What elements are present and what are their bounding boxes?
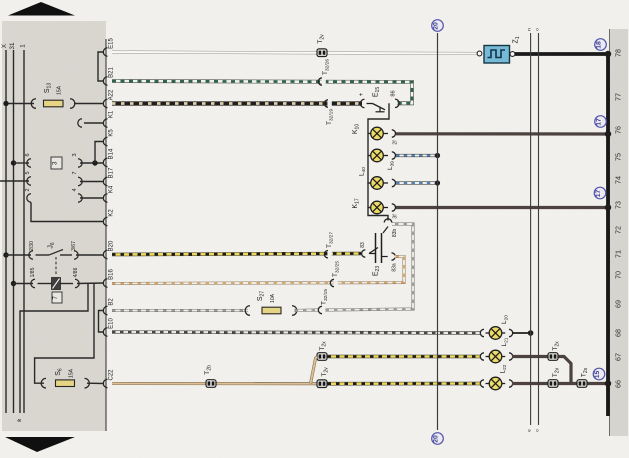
wire B2 gray to fuse S27 bbox=[112, 309, 248, 312]
connector pin 2 bbox=[27, 194, 31, 202]
wire lamp chain to terminal 83b bbox=[368, 208, 388, 221]
terminal circle at Z1 left bbox=[477, 51, 482, 56]
lamp L39 bbox=[368, 134, 371, 156]
wire B16 beige-white to terminal 83a bbox=[112, 257, 404, 284]
wire J6 coil to bus continuation ik bbox=[20, 284, 88, 414]
panel edge terminal K2 bbox=[103, 217, 107, 225]
relay J6 contact 2/30-3/67 bbox=[3, 252, 8, 257]
panel edge terminal B21 bbox=[103, 77, 107, 85]
node label 20 bottom bbox=[432, 433, 444, 445]
wire L39 blue-white to node 20 bbox=[396, 154, 438, 157]
wire T2x yellow-black to lamp L21 bbox=[328, 355, 482, 359]
panel edge terminal C22 bbox=[103, 379, 107, 387]
connector 3 box bbox=[51, 157, 62, 169]
wire K10 to track 76 brown bbox=[396, 132, 606, 135]
wire L40 blue-white to node 20 bbox=[396, 181, 438, 184]
wire T2v yellow-black to lamp L22 bbox=[328, 382, 482, 386]
wire J6 junction to fuse S6 bbox=[35, 284, 94, 384]
wire L20 to vertical node bbox=[512, 332, 531, 334]
wire switch E15 to lamp K10 bbox=[368, 103, 389, 133]
top continuation arrow bbox=[8, 2, 75, 16]
node label 15 bbox=[593, 368, 605, 380]
connector pin 3 bbox=[78, 159, 82, 167]
wire L22 brown to track 66 bbox=[512, 382, 606, 385]
inline connector T2x left bbox=[317, 353, 327, 361]
bottom continuation arrow bbox=[5, 437, 75, 452]
wire B21 green-white to switch E15 bbox=[112, 81, 412, 103]
switch E23 fog lamp bbox=[375, 233, 377, 263]
bus wire X bbox=[5, 50, 7, 413]
connector pin 7 bbox=[78, 177, 82, 185]
inline connector T2s bbox=[577, 380, 587, 388]
paper texture overlay bbox=[0, 0, 1, 1]
vertical wire n bbox=[530, 33, 532, 425]
inline connector T2v left bbox=[317, 380, 327, 388]
branch wire to T2x bbox=[311, 357, 317, 384]
node label 17 upper bbox=[595, 116, 607, 128]
terminal circle at Z1 right bbox=[510, 52, 515, 57]
positive supply rail bbox=[606, 54, 610, 416]
panel edge terminal B17 bbox=[103, 177, 107, 185]
lamp L20 bbox=[483, 328, 487, 337]
panel edge terminal E15 bbox=[103, 48, 107, 56]
wire B20 yellow-black to terminal 83 bbox=[112, 254, 361, 255]
node label 18 bbox=[595, 39, 607, 51]
wire E15 to Z1 white bbox=[112, 52, 477, 54]
terminal 83 of E23 bbox=[365, 249, 369, 258]
fuse S27 10A bbox=[245, 306, 250, 316]
inline connector T2v right bbox=[548, 380, 558, 388]
wire Z1 to track 78 black bbox=[515, 52, 606, 56]
right current-track strip background bbox=[609, 29, 628, 436]
jumper wire E15-B21 inside panel bbox=[98, 52, 104, 81]
lamp L22 bbox=[483, 379, 487, 388]
inline connector T2x right bbox=[548, 353, 558, 361]
left component panel background bbox=[2, 21, 106, 431]
terminal 83a of E23 bbox=[382, 256, 388, 258]
jumper wire B2-E10 inside panel bbox=[99, 311, 105, 333]
connector T32/26 bbox=[321, 77, 325, 86]
lamp L40 bbox=[368, 156, 371, 184]
connector T32/19 bbox=[327, 99, 331, 108]
bus wire 1 bbox=[23, 50, 25, 413]
wire L21 brown to track 66 bbox=[512, 357, 571, 384]
lamp L21 bbox=[483, 352, 487, 361]
vertical node line 20 bbox=[437, 33, 439, 430]
connector pin 6 bbox=[11, 160, 16, 165]
relay J6 coil 1/85-4/86 bbox=[11, 281, 16, 286]
connector pin 5 bbox=[0, 180, 29, 182]
fuse S6 15A bbox=[41, 378, 46, 388]
fuse S13 15A bbox=[6, 103, 34, 105]
panel edge terminal B16 bbox=[103, 279, 107, 287]
panel edge terminal K1 bbox=[103, 119, 107, 127]
panel edge terminal E10 bbox=[103, 328, 107, 336]
vertical wire o bbox=[538, 33, 540, 425]
relay Z1 timer bbox=[484, 46, 510, 64]
panel edge terminal K4 bbox=[103, 194, 107, 202]
panel edge terminal K5 bbox=[103, 137, 107, 145]
connector T32/27 bbox=[327, 250, 331, 259]
inline connector T2v bbox=[317, 49, 327, 57]
node label 17 lower bbox=[594, 187, 606, 199]
wire K17 to track 73 brown bbox=[396, 206, 606, 209]
panel edge terminal B2 bbox=[103, 306, 107, 314]
panel edge terminal A22 bbox=[103, 99, 107, 107]
bus wire 31 bbox=[13, 50, 15, 413]
boxed code 7 bbox=[52, 292, 62, 303]
connector pin 4 bbox=[78, 194, 82, 202]
wire C22 beige to T2v bbox=[112, 382, 318, 385]
wire E10 gray-black to lamp L20 bbox=[112, 332, 481, 333]
panel edge terminal B20 bbox=[103, 250, 107, 258]
connector T32/25 bbox=[333, 278, 337, 287]
warning lamp K17 bbox=[368, 183, 371, 208]
panel edge terminal B14 bbox=[103, 158, 107, 166]
connector T32/15 bbox=[321, 305, 325, 314]
terminal K1 stub bbox=[78, 119, 82, 127]
wire S27 to terminal 83b gray loop bbox=[326, 224, 414, 310]
wire A22 black-beige to switch E15 bbox=[112, 101, 362, 105]
node label 20 top bbox=[432, 20, 444, 32]
relay J6 actuating link bbox=[55, 257, 57, 276]
switch E15 heated rear window bbox=[360, 99, 364, 107]
inline connector T2b bbox=[206, 380, 216, 388]
